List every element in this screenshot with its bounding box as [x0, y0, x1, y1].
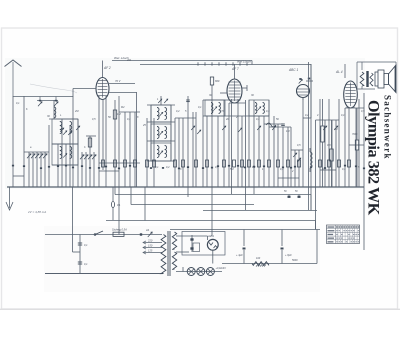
- svg-text:0,1: 0,1: [215, 166, 219, 169]
- svg-text:0,1: 0,1: [16, 102, 20, 105]
- svg-text:Olympia 382 WK: Olympia 382 WK: [365, 100, 383, 216]
- svg-text:20: 20: [225, 118, 229, 121]
- svg-text:20k: 20k: [126, 59, 132, 62]
- svg-text:0,1: 0,1: [84, 244, 88, 247]
- svg-text:AF 2: AF 2: [103, 66, 111, 70]
- svg-text:Sicherg 0,5A: Sicherg 0,5A: [112, 228, 127, 232]
- svg-text:AZ 1: AZ 1: [207, 234, 214, 238]
- svg-text:0,2: 0,2: [305, 114, 309, 117]
- svg-text:7000: 7000: [352, 133, 358, 136]
- svg-text:125: 125: [148, 249, 153, 253]
- svg-text:0,5: 0,5: [220, 110, 224, 113]
- svg-text:0,5: 0,5: [92, 118, 96, 121]
- svg-text:0,1: 0,1: [155, 166, 159, 169]
- svg-text:4A: 4A: [146, 228, 149, 232]
- svg-text:0,3: 0,3: [327, 144, 331, 147]
- svg-text:+0,9A/4V: +0,9A/4V: [216, 267, 227, 270]
- svg-text:+ 8µF: + 8µF: [285, 253, 292, 257]
- svg-text:0,1: 0,1: [84, 263, 88, 266]
- svg-text:0,2: 0,2: [252, 166, 256, 169]
- svg-text:0,1: 0,1: [280, 168, 284, 171]
- svg-text:0,1: 0,1: [198, 106, 202, 109]
- svg-text:800: 800: [215, 79, 220, 83]
- svg-text:70 V: 70 V: [115, 79, 121, 83]
- svg-text:0,2: 0,2: [166, 166, 170, 169]
- svg-text:220: 220: [147, 239, 153, 243]
- svg-text:Sachsenwerk: Sachsenwerk: [383, 95, 393, 160]
- svg-text:0,5: 0,5: [297, 144, 301, 147]
- svg-text:0,1: 0,1: [342, 168, 346, 171]
- svg-text:+ 4µF: + 4µF: [236, 253, 243, 257]
- svg-text:0,5: 0,5: [322, 168, 326, 171]
- svg-text:AF 7: AF 7: [231, 67, 239, 71]
- svg-text:0,5: 0,5: [361, 110, 365, 113]
- svg-text:AL 4: AL 4: [335, 70, 343, 74]
- svg-text:25: 25: [142, 124, 146, 127]
- svg-text:M2: M2: [121, 106, 125, 109]
- svg-text:0,1: 0,1: [256, 118, 260, 121]
- svg-text:150: 150: [148, 244, 153, 248]
- svg-text:0,3: 0,3: [266, 110, 270, 113]
- svg-text:2V = 4,88 mA: 2V = 4,88 mA: [27, 210, 46, 214]
- svg-text:0,1: 0,1: [127, 118, 131, 121]
- svg-text:100: 100: [256, 257, 261, 260]
- svg-text:0,1: 0,1: [341, 114, 345, 117]
- svg-text:ABC 1: ABC 1: [288, 68, 298, 72]
- svg-text:Wel.Lösch: Wel.Lösch: [237, 60, 251, 64]
- svg-text:0,2: 0,2: [176, 110, 180, 113]
- svg-text:5000: 5000: [292, 259, 298, 262]
